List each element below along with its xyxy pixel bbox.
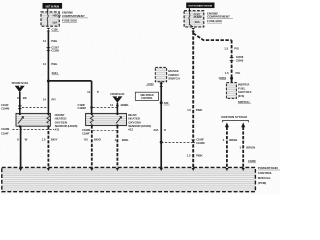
wire brake switch to PCM [160, 82, 162, 168]
wire front sensor signal to PCM [20, 126, 22, 167]
wire label 1.5 P/G (2) [225, 71, 241, 75]
wire label 1.5 P/G [224, 47, 239, 51]
label: engine compartment fuse box (left) [62, 11, 88, 23]
label: rear heated oxygen sensor [128, 113, 151, 131]
wire stub banner to fuse box [188, 8, 190, 11]
fuse F2 FUEL PUMP 30A [189, 11, 202, 27]
node at C190 row [160, 141, 163, 144]
wire label 14 BR/BL [110, 103, 129, 107]
wire label 5 BR/GN [240, 146, 255, 150]
engine compartment fuse box (right) [184, 11, 204, 27]
label: brake on/off switch [168, 69, 179, 80]
label: inertia fuel shutoff switch [238, 83, 252, 104]
wire fuel pump feed down (dashed heavy) [192, 32, 194, 168]
connector line C190 above rear (dashed) [93, 106, 117, 108]
wire label 1.5 P/BK [187, 154, 204, 158]
connector C1908 [248, 159, 256, 163]
wire arrow to rear sensor [116, 103, 118, 114]
connector C194M/C194F labels (below front sensor) [1, 127, 10, 135]
see speed control note box [135, 92, 158, 100]
wire rear sensor heater to PCM (dashed) [91, 125, 93, 167]
wire branch diagonal to IFS column [193, 33, 231, 40]
splice S134 [47, 71, 59, 83]
connector below fuel pump fuse [191, 28, 195, 32]
wire label 4 W/BL [115, 138, 129, 142]
rear heated oxygen sensor box [86, 113, 127, 127]
connector C2008/C2009 [230, 55, 244, 62]
scan texture overlay [0, 0, 280, 195]
fuse F1 15A [47, 12, 61, 26]
wire label 1.5 P/BK (upper) [187, 108, 203, 112]
connector C190M/C190F labels (below rear sensor) [82, 128, 91, 135]
wire label 8 W [17, 138, 28, 142]
connector C190F/C190M (right, on fuel pump feed) [191, 138, 205, 145]
wire label 1.5 BK/Y [42, 138, 58, 142]
connector C136 [47, 27, 59, 31]
wire branch S134 to corner [48, 80, 91, 82]
off-page arrow FROM S134 (left) [12, 81, 29, 92]
brake on/off switch box [155, 67, 166, 81]
label: engine compartment fuse box (right) [207, 11, 233, 23]
power banner HOT IN RUN [43, 3, 63, 9]
wire label 8 BK [17, 96, 28, 100]
wire label H3 BK/O [84, 138, 101, 142]
engine compartment fuse box (left) [41, 12, 59, 26]
wire label 14 P [87, 90, 99, 94]
connector C190F/C190M labels (above rear sensor) [78, 103, 87, 110]
powertrain control module box [2, 167, 256, 191]
PCM terminal entries [19, 168, 245, 171]
arrow to ignition (right) [241, 122, 245, 167]
wire P/Y fuse branch to front sensor [47, 81, 49, 113]
wire label 14 P/BL (2) [43, 62, 58, 66]
wire label 14 P/Y [43, 97, 56, 101]
node C2001 [219, 76, 234, 80]
front heated oxygen sensor box [16, 113, 50, 128]
node on P wire at connector row [90, 106, 93, 109]
wire IFS column down [231, 40, 233, 83]
connector line C190 below rear (dashed) [93, 130, 118, 132]
wire stub from banner to fuse box [47, 9, 49, 12]
wire arrow to front sensor (BK) [19, 92, 21, 113]
wire fuse to S134 (P/BL) [47, 31, 49, 81]
wire label 14 P/BL [43, 39, 58, 43]
connector C214 [146, 82, 163, 87]
wire label 24A O [153, 128, 166, 132]
wire label 3 BR/BL [223, 138, 238, 142]
connector line C194 below (dashed) [12, 129, 54, 131]
label: front heated oxygen sensor [55, 113, 78, 131]
wire rear sensor signal to PCM (dashed) [116, 125, 118, 167]
bracket ignition system [223, 120, 249, 122]
splice S30 [160, 101, 170, 105]
node at rear connector [116, 104, 118, 106]
off-page arrow FROM S134 (middle) [110, 92, 125, 103]
connector C1207 / C1308 [47, 45, 60, 52]
connector line C190 (dashed, right) [161, 141, 191, 143]
connector C194F/C194M labels (above front sensor) [1, 103, 22, 110]
connector line C194 (dashed) [22, 107, 48, 109]
inertia fuel shutoff switch box [226, 83, 236, 99]
label: powertrain control module [258, 166, 280, 185]
power banner HOT IN START OR RUN [186, 3, 214, 9]
arrow to ignition (left) [225, 122, 229, 167]
wire front sensor heater to PCM (dashed) [47, 126, 49, 167]
wire corner down to rear sensor row [91, 81, 93, 114]
